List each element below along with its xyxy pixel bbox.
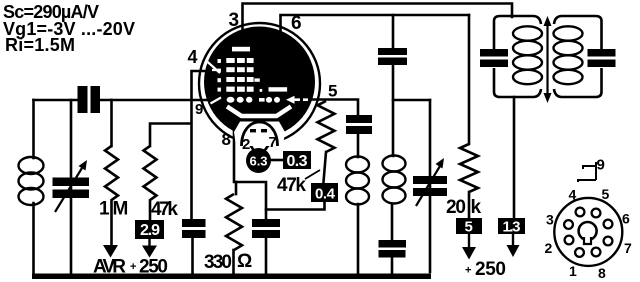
svg-text:1: 1 [99, 199, 110, 220]
tube dome marks [250, 129, 256, 132]
wire heater to 0.3 [271, 159, 283, 162]
wire pin8 cathode [234, 128, 266, 219]
svg-text:4: 4 [188, 47, 198, 67]
box 0.4 [311, 183, 338, 202]
arrow +250 right [468, 234, 470, 248]
tube V1 black body [204, 27, 315, 138]
svg-text:AVR: AVR [93, 257, 126, 278]
ift2 left box [494, 16, 541, 97]
tube V1 envelope [199, 23, 320, 144]
tube grid marks [218, 47, 288, 103]
wire g2 vertical [190, 100, 193, 219]
svg-text:6: 6 [622, 211, 630, 227]
ground bus [32, 274, 431, 280]
wire 0.4 to cathode [266, 202, 325, 210]
variable capacitor C5 plates [413, 176, 447, 184]
tube anode trapezoid [227, 107, 291, 117]
svg-text:20: 20 [446, 197, 466, 218]
resistor 47k agc [144, 146, 157, 220]
svg-text:8: 8 [598, 265, 606, 281]
ift2 left coil [513, 26, 542, 84]
svg-text:5: 5 [465, 219, 473, 236]
ift2 right cap [588, 49, 616, 57]
svg-text:47k: 47k [277, 175, 306, 196]
svg-text:6: 6 [291, 13, 302, 34]
capacitor cathode bypass [252, 219, 280, 227]
wire pin5 anode [309, 100, 358, 116]
wire 1M top stub [110, 100, 113, 146]
ift2 left cap [480, 49, 508, 57]
svg-text:9: 9 [597, 157, 605, 174]
wire 330 stub [235, 182, 238, 194]
resistor 47k anode [318, 101, 335, 152]
capacitor anode series [346, 115, 372, 123]
capacitor g2 bypass [182, 219, 206, 227]
svg-text:0.3: 0.3 [287, 153, 308, 170]
box 1.3 [498, 218, 525, 234]
arrow 1.3 down [512, 234, 514, 246]
svg-text:5: 5 [602, 186, 610, 202]
svg-text:Ri=1.5M: Ri=1.5M [5, 35, 75, 55]
wire varcap2 branch [429, 100, 432, 272]
variable capacitor C2 plates [53, 178, 90, 187]
top cap symbol [578, 162, 596, 182]
svg-text:6.3: 6.3 [250, 154, 268, 169]
svg-text:M: M [113, 199, 129, 220]
wire heater lead 2 [249, 143, 254, 150]
svg-text:7: 7 [624, 240, 632, 256]
wire pin6 up [281, 15, 470, 30]
svg-text:1: 1 [569, 263, 577, 279]
wire varcap1 branch [70, 100, 73, 274]
wire 20k to box5 [468, 192, 471, 218]
wire 20k feed [468, 15, 471, 144]
svg-text:Ω: Ω [237, 251, 252, 272]
wire tuned secondary top [393, 99, 430, 102]
svg-text:2.9: 2.9 [140, 222, 160, 239]
socket key [579, 222, 597, 240]
ift2 tuning arrow [546, 24, 548, 95]
variable capacitor C5 arrow [416, 166, 440, 206]
socket pins [564, 208, 612, 257]
svg-text:330: 330 [204, 252, 232, 273]
wire 47k2 bottom to 0.4 [324, 152, 327, 182]
box 2.9 [135, 220, 164, 239]
svg-text:k: k [471, 197, 482, 218]
capacitor ift1 bottom [379, 240, 407, 248]
antenna coil L1 [19, 157, 44, 205]
pointer 47k [305, 170, 320, 179]
wire ift1 right coil bottom [391, 204, 394, 240]
variable capacitor C2 arrow [55, 168, 82, 212]
capacitor screen [378, 48, 407, 55]
box 0.3 [283, 151, 311, 169]
wire left rail [32, 100, 35, 158]
wire heater lead 7 [265, 141, 272, 150]
svg-text:+: + [465, 265, 471, 277]
wire screen cap branch [392, 15, 395, 48]
svg-text:+: + [130, 261, 136, 273]
coupling capacitor C1 [78, 86, 88, 113]
wire ift1 left coil [357, 134, 360, 157]
ift1 left coil [346, 157, 369, 205]
ift1 right coil [383, 156, 406, 204]
tube internal white leads [206, 61, 221, 104]
svg-text:5: 5 [328, 82, 337, 101]
resistor 330 [226, 194, 242, 250]
box 5 [456, 218, 482, 234]
tube bottom white cutout [234, 122, 285, 147]
svg-text:47k: 47k [151, 199, 178, 220]
svg-text:2: 2 [545, 240, 553, 256]
ift2 right box [554, 16, 602, 97]
svg-text:7: 7 [269, 134, 277, 151]
svg-text:8: 8 [222, 130, 231, 149]
wire grid input horizontal [34, 99, 78, 102]
svg-text:250: 250 [139, 257, 168, 278]
resistor 1M [105, 146, 118, 246]
svg-text:3: 3 [546, 212, 554, 228]
wire pin4 bracket [192, 71, 206, 100]
tube pin5 white arrow [293, 98, 308, 101]
tube heater dome [242, 122, 278, 146]
wire pin3 up [243, 4, 513, 31]
ift2 right coil [554, 26, 583, 84]
arrow AVR [103, 245, 118, 258]
heater circle 6.3 [246, 148, 271, 173]
svg-text:250: 250 [475, 259, 506, 280]
svg-text:0.4: 0.4 [315, 186, 336, 203]
socket outline [554, 198, 622, 266]
wire 47k agc top [150, 124, 191, 147]
svg-text:2: 2 [242, 136, 250, 153]
resistor 20k [460, 144, 478, 192]
arrow +250 left [148, 239, 150, 246]
svg-text:1.3: 1.3 [503, 219, 521, 236]
svg-text:4: 4 [569, 187, 577, 203]
svg-text:3: 3 [229, 10, 240, 31]
wire ift2 tap down [513, 97, 516, 218]
